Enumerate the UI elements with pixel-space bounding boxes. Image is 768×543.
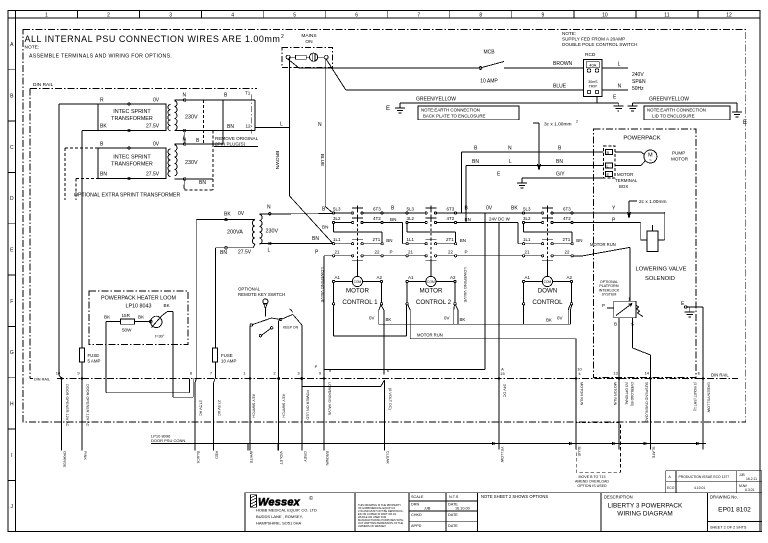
svg-text:SUSPEND OVERLOAD: SUSPEND OVERLOAD [645,382,649,423]
svg-text:CONTROL 2: CONTROL 2 [416,299,452,306]
green/yellow earth wire left [395,103,624,113]
svg-text:4.10.01: 4.10.01 [694,486,705,490]
svg-text:DIN RAIL: DIN RAIL [33,82,54,88]
svg-text:MOTOR: MOTOR [420,288,443,295]
svg-text:INTEC SPRINT: INTEC SPRINT [113,109,151,115]
svg-text:2c x 1.00mm: 2c x 1.00mm [639,199,666,205]
svg-text:AMEND OVERLOAD: AMEND OVERLOAD [575,480,609,484]
svg-text:0V: 0V [369,316,374,321]
svg-text:BN: BN [322,225,328,230]
svg-text:BLUE: BLUE [319,154,325,167]
svg-text:BN: BN [472,159,479,165]
svg-text:JJB: JJB [424,507,431,511]
svg-text:DRAWING No.: DRAWING No. [710,495,738,500]
wire brown from switch to MCB [288,59,480,68]
svg-text:BN: BN [312,236,319,242]
svg-text:SYSTEM: SYSTEM [602,293,617,297]
contactor K3 DOWN CONTROL [522,206,573,305]
svg-text:27.5V: 27.5V [146,124,160,130]
svg-text:MOTOR RUN: MOTOR RUN [590,242,616,247]
svg-text:TRIP: TRIP [589,85,598,89]
svg-text:MOTOR: MOTOR [346,288,369,295]
svg-text:27.5V AC: 27.5V AC [199,400,203,416]
svg-text:27.5V AC: 27.5V AC [217,400,221,416]
svg-text:MCB: MCB [483,50,495,56]
svg-text:ORANGE: ORANGE [63,451,67,468]
svg-text:C: C [10,145,14,151]
svg-text:YELLOW: YELLOW [500,447,504,463]
svg-text:MOTOR: MOTOR [617,172,633,177]
svg-text:P: P [602,303,605,308]
svg-text:10 AMP: 10 AMP [480,79,498,85]
svg-text:10 AMP: 10 AMP [221,359,236,364]
svg-text:H: H [10,402,14,408]
rail terminal numbers [56,364,701,376]
rail terminal dots [60,377,704,380]
svg-text:11: 11 [664,13,669,19]
pump motor [615,150,657,166]
svg-text:POWERPACK: POWERPACK [623,136,660,142]
svg-text:(6 VOLT DC): (6 VOLT DC) [388,388,392,411]
svg-text:DESCRIPTION: DESCRIPTION [604,495,633,500]
brown riser from mains switch [290,57,333,243]
svg-text:TRANSFORMER: TRANSFORMER [111,116,153,122]
svg-text:VIOLET: VIOLET [279,451,283,465]
svg-text:T1: T1 [245,91,251,96]
svg-text:~: ~ [649,158,652,164]
200VA wires [196,214,332,379]
small print [358,503,404,528]
svg-text:E: E [698,371,701,376]
svg-text:EP01 8102: EP01 8102 [718,507,751,514]
svg-text:6.3.01: 6.3.01 [745,488,755,492]
grid numbers [45,13,732,19]
svg-text:BN: BN [220,250,227,256]
svg-text:0V: 0V [486,206,493,212]
svg-text:15: 15 [500,371,505,376]
grid letter ticks [8,70,16,481]
Wessex logo [251,495,257,508]
svg-text:BUDDS LANE , ROMSEY,: BUDDS LANE , ROMSEY, [256,514,303,519]
PSU enclosure dash-dot box [23,30,746,422]
svg-text:©: © [309,495,313,502]
svg-text:OPTIONAL EXTRA SPRINT TRANSFOR: OPTIONAL EXTRA SPRINT TRANSFORMER [74,193,181,199]
svg-text:DOOR PSU CONN.: DOOR PSU CONN. [151,438,186,443]
svg-text:DOUBLE POLE CONTROL SWITCH: DOUBLE POLE CONTROL SWITCH [562,42,637,47]
svg-text:E: E [386,106,390,112]
pump motor supply wires [462,152,604,188]
svg-text:0V: 0V [238,211,245,217]
svg-text:NOTE:: NOTE: [25,45,40,51]
svg-text:NOTE:: NOTE: [562,31,576,36]
T1 wires [59,100,255,144]
svg-text:2: 2 [281,34,284,40]
contactor K2 MOTOR CONTROL 2 [406,206,457,305]
DIN RAIL box [30,88,738,378]
left risers to rail [59,104,82,451]
svg-text:3: 3 [169,13,172,19]
svg-text:CONTROL 1: CONTROL 1 [342,299,378,306]
svg-text:P: P [465,250,468,255]
svg-text:JJB: JJB [739,473,745,477]
svg-text:2: 2 [107,13,110,19]
interlock valve [607,301,643,318]
svg-text:PUMP: PUMP [672,151,685,156]
svg-text:BK: BK [460,317,466,322]
svg-text:GREEN/YELLOW: GREEN/YELLOW [707,382,711,413]
svg-text:16.10.00: 16.10.00 [455,507,470,511]
grid letters [10,42,14,510]
svg-text:BLUE: BLUE [553,84,567,90]
contactor K1 MOTOR CONTROL 1 [332,206,383,305]
svg-text:DIN RAIL: DIN RAIL [711,373,729,378]
svg-text:BK: BK [138,315,145,320]
svg-text:200VA: 200VA [227,230,243,236]
fuse 10 amp [213,348,218,362]
svg-text:P: P [390,250,393,255]
svg-text:R: R [100,98,104,104]
svg-text:2PIN PLUG(S): 2PIN PLUG(S) [215,142,246,147]
RCD rating box [586,62,599,68]
rotated labels above bottom bus [65,382,711,427]
svg-text:BN: BN [390,217,396,222]
svg-text:BK: BK [224,212,231,218]
svg-text:LOWERING VALVE: LOWERING VALVE [328,382,332,416]
svg-text:OPTION IS USED: OPTION IS USED [577,484,607,488]
bus junction arrows [492,442,702,445]
svg-text:5: 5 [293,13,296,19]
svg-text:ECO: ECO [667,486,675,490]
svg-text:LOWERING VALVE: LOWERING VALVE [320,267,325,303]
svg-text:15R: 15R [122,313,131,318]
svg-text:10: 10 [56,371,61,376]
svg-text:SP&N: SP&N [632,79,646,85]
svg-text:REMOTE KEY SWITCH: REMOTE KEY SWITCH [238,292,285,297]
svg-text:5 AMP: 5 AMP [88,359,101,364]
svg-text:12: 12 [726,13,732,19]
heater loom wires down [106,312,193,398]
svg-text:NOTE:EARTH CONNECTION: NOTE:EARTH CONNECTION [647,108,706,113]
svg-text:TRANSFORMER: TRANSFORMER [111,162,153,168]
K1 coil bottom wiring [333,305,576,378]
terminal strip T1/12 dash-dot [250,95,252,134]
svg-text:7: 7 [417,13,420,19]
svg-text:BK: BK [104,315,111,320]
svg-text:BK: BK [546,318,552,323]
svg-text:BROWN: BROWN [553,61,573,67]
svg-text:DOOR OPENER 12V AC: DOOR OPENER 12V AC [65,384,69,427]
svg-text:KEEP ON: KEEP ON [283,326,299,330]
svg-text:0V: 0V [444,316,449,321]
svg-text:0V: 0V [153,142,160,148]
overload option dashed box [576,423,620,472]
svg-text:POWERPACK HEATER LOOM: POWERPACK HEATER LOOM [101,296,176,302]
thermal switch [151,312,173,328]
below-rail risers [250,379,619,451]
svg-text:MOTOR RUN: MOTOR RUN [580,382,584,406]
svg-text:GREEN/YELLOW: GREEN/YELLOW [649,97,689,103]
svg-text:2: 2 [576,120,578,124]
fuse 5 amp [80,348,85,362]
svg-text:DOWN: DOWN [538,288,558,295]
svg-text:DATE: DATE [448,524,458,528]
svg-text:MAINS: MAINS [301,33,316,39]
svg-text:N: N [508,146,512,152]
svg-text:I: I [11,453,12,459]
svg-text:RCD: RCD [585,52,596,58]
L wire from strip to brown riser [255,127,290,129]
svg-text:BN: BN [556,159,563,165]
svg-text:E: E [607,172,610,177]
svg-text:10: 10 [602,13,608,19]
svg-text:LOWERING VALVE: LOWERING VALVE [635,267,686,273]
svg-text:LIBERTY 3 POWERPACK: LIBERTY 3 POWERPACK [608,503,683,510]
svg-text:MOTOR: MOTOR [671,157,689,162]
svg-text:t=30°: t=30° [155,334,165,339]
blue riser N [325,59,332,213]
svg-text:BLUE: BLUE [577,447,581,457]
svg-text:MOTOR RUN: MOTOR RUN [613,382,617,406]
svg-text:N: N [267,205,271,211]
svg-text:LOWERING VALVE: LOWERING VALVE [463,267,468,303]
svg-text:SCALE: SCALE [411,495,424,499]
svg-text:230V: 230V [185,115,198,121]
svg-text:CLEAR: CLEAR [386,451,390,464]
RCD box [584,60,628,97]
2c cable marker [628,201,638,218]
note earth connection back plate box [418,106,519,120]
Y wire to solenoid [573,212,665,240]
svg-text:230V: 230V [185,160,198,166]
svg-text:L: L [268,248,271,254]
svg-text:DOOR OPENER 12V AC: DOOR OPENER 12V AC [86,384,90,427]
valve wires down [619,307,703,450]
svg-text:OPTIONAL: OPTIONAL [238,287,261,292]
svg-text:BK: BK [100,124,107,130]
svg-text:4: 4 [231,13,234,19]
svg-text:G/Y: G/Y [556,172,565,178]
svg-text:BACK PLATE TO ENCLOSURE: BACK PLATE TO ENCLOSURE [423,114,486,119]
POWERPACK enclosure [594,129,696,378]
svg-text:N: N [318,122,322,128]
svg-text:0V: 0V [557,316,562,321]
svg-text:ALL INTERNAL PSU CONNECTION WI: ALL INTERNAL PSU CONNECTION WIRES ARE 1.… [25,34,281,44]
svg-text:16.2.11: 16.2.11 [746,477,757,481]
svg-text:LP10 8043: LP10 8043 [125,304,151,310]
title block [245,493,762,532]
svg-text:40A: 40A [589,63,596,68]
P wire to solenoid [573,223,647,241]
svg-text:SUPPLY FED FROM A 20AMP: SUPPLY FED FROM A 20AMP [562,37,625,42]
svg-text:MOTOR RUN: MOTOR RUN [417,332,443,337]
svg-text:WHITE: WHITE [249,451,253,464]
svg-text:24V DC: 24V DC [503,384,507,398]
svg-text:BROWN: BROWN [274,151,280,170]
svg-text:30mS: 30mS [588,80,598,84]
svg-text:LID TO ENCLOSURE: LID TO ENCLOSURE [652,114,695,119]
svg-text:CHKD: CHKD [411,513,422,517]
svg-text:BN: BN [199,180,206,186]
svg-text:N: N [183,138,187,144]
svg-text:PRODUCTION ISSUE ECO 1377: PRODUCTION ISSUE ECO 1377 [679,475,730,479]
motor terminal box [604,146,615,178]
svg-text:D: D [10,196,14,202]
transformer T1 INTEC SPRINT [98,101,177,131]
wire blue from switch to RCD [326,59,583,90]
svg-text:TERMINAL: TERMINAL [615,178,638,183]
svg-text:50Hz: 50Hz [632,86,644,92]
svg-text:NOTE SHEET 2 SHOWS OPTIONS: NOTE SHEET 2 SHOWS OPTIONS [481,494,548,499]
svg-text:1: 1 [45,13,48,19]
svg-text:BLACK: BLACK [196,451,200,464]
svg-text:27.5V: 27.5V [146,172,160,178]
svg-text:HAMPSHIRE, SO51 0HA: HAMPSHIRE, SO51 0HA [256,521,301,526]
motor run wire from down control [573,247,630,301]
svg-text:RED: RED [215,451,219,459]
heater resistor [106,319,152,324]
svg-text:3c x 1.00mm: 3c x 1.00mm [544,122,571,128]
transformer T2 optional [98,144,223,179]
svg-text:BK: BK [511,206,518,212]
svg-text:ASSEMBLE TERMINALS AND WIRING: ASSEMBLE TERMINALS AND WIRING FOR OPTION… [29,54,172,60]
svg-text:BN: BN [227,124,234,130]
svg-text:KEY SWITCH: KEY SWITCH [252,394,256,418]
svg-text:B: B [607,150,610,155]
0V riser jog below rail [195,379,215,451]
svg-text:N: N [183,93,187,99]
svg-text:DATE: DATE [448,513,458,517]
lowering valve solenoid coil [647,231,658,252]
bottom colour labels [63,447,656,468]
svg-text:(3 VIOLET (SHT 1)): (3 VIOLET (SHT 1)) [693,382,697,411]
lowering valve wire riser [323,256,325,451]
svg-text:P: P [315,364,318,369]
svg-text:OWNERS OF WESSEX: OWNERS OF WESSEX [358,524,386,528]
svg-text:ON: ON [305,39,313,45]
svg-text:230V: 230V [266,229,279,235]
svg-text:GREEN/YELLOW: GREEN/YELLOW [416,97,456,103]
svg-text:N.T.S: N.T.S [449,495,459,499]
svg-text:24V DC W: 24V DC W [489,216,511,221]
svg-text:13: 13 [613,371,618,376]
interconnect wires K1-K2 [383,213,406,256]
svg-text:SLATE: SLATE [652,447,656,459]
svg-text:12: 12 [246,124,252,129]
P stub into contact 21 [324,255,333,257]
grid number ticks [78,11,699,19]
svg-text:9: 9 [542,13,545,19]
svg-text:50W: 50W [122,328,132,333]
svg-text:L: L [183,185,186,191]
svg-text:OVERLOAD 95): OVERLOAD 95) [630,382,634,406]
svg-text:N: N [618,84,622,90]
svg-text:HOBB MEDICAL EQUIP. CO. LTD: HOBB MEDICAL EQUIP. CO. LTD [256,508,317,513]
svg-text:BK: BK [386,317,392,322]
svg-text:8: 8 [479,13,482,19]
svg-text:BROWN: BROWN [325,451,329,466]
svg-text:SOLENOID: SOLENOID [645,276,675,282]
svg-text:B: B [614,322,617,327]
risers to pump motor wires [324,152,499,379]
svg-text:E: E [743,120,747,126]
svg-text:REMOVE ORIGINAL: REMOVE ORIGINAL [215,136,259,141]
svg-text:BOX: BOX [619,184,628,189]
svg-text:DRN: DRN [411,503,419,507]
svg-text:14: 14 [645,371,650,376]
mains switch symbol [286,53,328,61]
svg-text:APPD: APPD [411,524,422,528]
svg-text:F: F [10,299,13,305]
svg-text:0V: 0V [153,98,160,104]
svg-text:INTEC SPRINT: INTEC SPRINT [113,155,151,161]
svg-text:CONTROL: CONTROL [532,299,563,306]
svg-text:L: L [618,62,621,68]
powerpack heater loom box [89,291,188,345]
svg-text:(V3 OPTIONAL: (V3 OPTIONAL [625,382,629,405]
svg-text:240V: 240V [632,72,644,78]
earth in powerpack [684,306,694,317]
T2 wires (optional dashed) [65,100,213,200]
svg-text:WIRING DIAGRAM: WIRING DIAGRAM [617,511,672,518]
svg-text:DIN RAIL: DIN RAIL [34,377,50,381]
svg-text:POWER ON LED: POWER ON LED [306,390,310,420]
svg-text:BN: BN [465,217,471,222]
3c cable marker [533,123,541,170]
svg-text:PINK: PINK [83,451,87,460]
green/yellow earth wire right (lid) [628,103,742,117]
svg-text:SHEET 2 OF 2 SHTS: SHEET 2 OF 2 SHTS [710,526,747,530]
bottom bus [151,443,706,445]
svg-text:BK: BK [164,303,171,308]
svg-text:27.5V: 27.5V [238,249,252,255]
svg-text:G: G [10,350,14,356]
svg-text:NOTE:EARTH CONNECTION: NOTE:EARTH CONNECTION [421,108,480,113]
svg-text:6: 6 [355,13,358,19]
main PSU transformer 200VA [252,215,262,245]
svg-text:L: L [280,122,283,128]
svg-text:MOVE B TO T13: MOVE B TO T13 [579,475,606,479]
svg-text:KEY SWITCH: KEY SWITCH [282,394,286,418]
interconnect wires K2-K3 [457,213,523,256]
svg-text:GREY: GREY [303,451,307,462]
svg-text:L: L [509,159,512,165]
svg-text:FUSE: FUSE [88,353,100,358]
revision table [666,471,762,493]
svg-text:BN: BN [100,172,107,178]
MCB switch [480,62,584,69]
svg-text:FUSE: FUSE [221,353,233,358]
